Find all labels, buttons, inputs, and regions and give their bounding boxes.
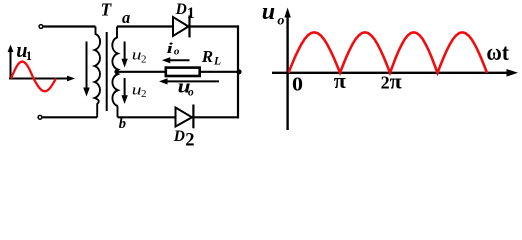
rail junction dot — [236, 69, 241, 74]
primary winding — [95, 27, 101, 118]
u1 plot horizontal axis — [9, 76, 75, 82]
tick label 2pi — [381, 68, 402, 93]
secondary winding lower — [112, 72, 117, 118]
u_o axis label — [262, 0, 285, 29]
wire a to D1 — [117, 25, 173, 27]
primary arrow (down) — [83, 42, 90, 97]
resistor RL — [166, 68, 200, 76]
u2 lower label — [132, 81, 147, 100]
secondary winding upper — [112, 27, 118, 72]
u2 upper label — [132, 47, 147, 66]
center tap wire to resistor and rail — [117, 71, 238, 73]
svg-text:ωt: ωt — [486, 39, 509, 65]
svg-text:R: R — [201, 47, 213, 66]
u1 label — [16, 37, 32, 63]
core bar — [106, 32, 108, 111]
D1 label — [175, 1, 195, 22]
i_o label — [167, 40, 180, 57]
svg-text:u: u — [262, 0, 275, 25]
right rail — [237, 25, 239, 118]
wire b to D2 — [118, 116, 176, 118]
u2 upper arrow — [121, 42, 127, 68]
svg-text:2: 2 — [141, 53, 147, 65]
terminal bottom — [38, 115, 42, 119]
RL label — [201, 47, 221, 68]
center tap junction dot — [114, 69, 119, 74]
u_o arrow — [159, 78, 219, 84]
diode D2 triangle — [176, 108, 193, 127]
svg-text:2: 2 — [185, 131, 194, 151]
wire D2 to rail — [193, 116, 239, 118]
svg-text:2: 2 — [141, 88, 147, 100]
svg-text:0: 0 — [292, 72, 303, 95]
D2 label — [173, 128, 195, 151]
u_o label — [178, 76, 194, 99]
svg-text:T: T — [101, 0, 113, 19]
svg-text:1: 1 — [26, 49, 32, 63]
output plot y axis — [284, 8, 290, 131]
u1 sine wave — [11, 62, 56, 92]
svg-text:o: o — [277, 14, 284, 29]
diode D1 triangle — [173, 17, 189, 36]
terminal top — [39, 25, 43, 29]
wire D1 to rail — [190, 25, 240, 27]
output plot x axis — [272, 69, 518, 77]
i_o arrow — [162, 57, 190, 63]
diode D2 cathode bar — [192, 105, 194, 129]
svg-text:i: i — [167, 40, 174, 57]
svg-text:2: 2 — [381, 72, 390, 92]
svg-text:a: a — [122, 8, 130, 27]
u2 lower arrow — [121, 78, 127, 104]
svg-text:D: D — [175, 1, 187, 18]
svg-text:o: o — [188, 86, 194, 98]
wire top terminal to primary — [44, 25, 96, 27]
svg-text:o: o — [174, 45, 180, 57]
rectified output waveform — [289, 32, 488, 73]
diode D1 cathode bar — [188, 15, 190, 37]
svg-text:L: L — [213, 56, 221, 68]
svg-text:1: 1 — [187, 5, 195, 22]
wire bottom terminal to primary — [43, 116, 98, 118]
svg-text:D: D — [173, 128, 185, 145]
u1 plot vertical axis — [8, 45, 14, 80]
